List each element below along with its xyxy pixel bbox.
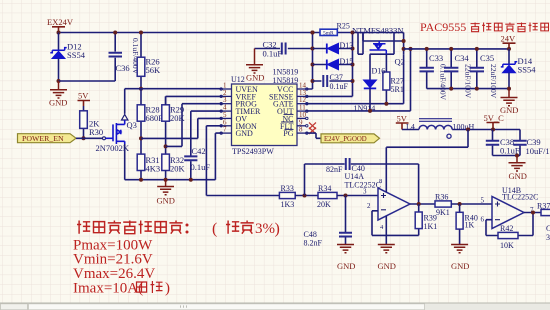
svg-text:D16: D16 <box>372 67 386 76</box>
svg-text:5V: 5V <box>78 91 89 101</box>
diode D13 1N5819 <box>313 41 354 54</box>
svg-text:GND: GND <box>509 171 527 181</box>
svg-text:D15: D15 <box>340 57 354 66</box>
svg-text:SS54: SS54 <box>67 50 86 60</box>
pin 12 GATE <box>273 96 306 109</box>
resistor R33 <box>279 184 295 209</box>
resistor R36 <box>435 193 451 218</box>
wire U14A feedback loop <box>372 211 419 236</box>
resistor R32 <box>162 154 186 180</box>
pin 1 UVEN <box>222 82 258 95</box>
svg-text:(: ( <box>212 221 217 238</box>
svg-text:10K: 10K <box>500 241 514 250</box>
junction at EX24V node <box>57 31 61 35</box>
capacitor C39 <box>513 130 550 156</box>
wire OV tap <box>141 118 222 138</box>
svg-text:U12: U12 <box>231 75 245 84</box>
svg-text:56K: 56K <box>146 65 162 75</box>
junction U14B feedback <box>531 211 535 215</box>
wire gate pin12 run <box>306 54 404 103</box>
svg-text:3: 3 <box>363 188 367 196</box>
pin circle Q3 gate <box>103 137 106 140</box>
resistor R31 <box>137 154 160 180</box>
junction OUT rail <box>409 47 413 51</box>
svg-text:22uF/100V: 22uF/100V <box>489 64 498 99</box>
power port 5V (L4) <box>396 114 409 130</box>
scrollbar horizontal <box>0 303 550 310</box>
junction D13 right <box>351 47 355 51</box>
wire to Q3 drain <box>124 89 126 114</box>
svg-text:NTMFS4833N: NTMFS4833N <box>352 26 403 36</box>
wire 5V_C rail <box>452 129 520 131</box>
junction SENSE rail top <box>351 31 355 35</box>
svg-text:5R1: 5R1 <box>391 85 404 94</box>
svg-text:0.1uF: 0.1uF <box>330 82 349 91</box>
capacitor C40 <box>305 158 419 204</box>
resistor R30 <box>80 106 103 138</box>
svg-text:7: 7 <box>223 126 227 134</box>
junction 24V node <box>507 47 511 51</box>
svg-text:20K: 20K <box>170 113 186 123</box>
svg-text:C33: C33 <box>429 53 443 63</box>
svg-text:20K: 20K <box>317 200 331 209</box>
resistor R27 <box>383 54 404 103</box>
junction C32/D13 <box>311 47 315 51</box>
junction gnd link <box>515 154 519 158</box>
svg-text:0.1uF: 0.1uF <box>191 162 211 172</box>
junction D15 right <box>351 63 355 67</box>
pin 13 SENSE <box>269 89 306 102</box>
svg-text:): ) <box>275 221 280 238</box>
svg-text:1N5819: 1N5819 <box>273 76 299 85</box>
svg-text:GND: GND <box>378 261 396 271</box>
wire UVEN node y=88.7 <box>125 88 222 90</box>
svg-text:82nF: 82nF <box>326 165 343 174</box>
resistor R37 <box>537 202 550 216</box>
wire D12 to gnd node <box>58 59 60 82</box>
svg-text:TPS2493PW: TPS2493PW <box>232 147 274 156</box>
resistor R39 <box>415 204 437 231</box>
capacitor C38 <box>486 130 520 156</box>
svg-text:E24V_PGOOD: E24V_PGOOD <box>324 136 367 143</box>
junction R32 bottom <box>164 178 168 182</box>
capacitor C36 <box>109 33 141 82</box>
power port 5V_C <box>484 113 505 130</box>
svg-text:Q3: Q3 <box>127 120 137 130</box>
junction C40 tap <box>303 194 307 198</box>
svg-text:R42: R42 <box>500 224 513 233</box>
pin 6 IMON <box>222 118 257 131</box>
transistor Q3 2N7002K <box>96 120 137 153</box>
junction D16 out <box>368 109 372 113</box>
junction 5V_C node <box>491 128 495 132</box>
junction L4 right / opamp supply <box>466 128 470 132</box>
ground symbol mid rail <box>157 180 175 206</box>
wire PG to port <box>306 133 321 138</box>
svg-text:R25: R25 <box>337 22 350 31</box>
junction C37 left <box>311 79 315 83</box>
svg-text:C35: C35 <box>480 53 494 63</box>
junction R25 left <box>311 31 315 35</box>
svg-text:0.1uF: 0.1uF <box>263 49 283 59</box>
junction D12 bottom <box>57 79 61 83</box>
diode D16 1N914 <box>354 54 386 113</box>
wire C38/C39 gnd link <box>493 155 521 157</box>
diode D14 SS54 <box>501 49 536 89</box>
svg-text:D13: D13 <box>340 41 354 50</box>
annotation title cjk line <box>77 221 183 234</box>
resistor R25 5mR sense <box>320 22 350 37</box>
svg-text:C34: C34 <box>455 53 470 63</box>
wire Q3 source to gnd rail <box>124 144 126 180</box>
annotation fullwidth colon <box>186 224 189 234</box>
junction R27 bottom <box>384 102 388 106</box>
pin 7 GND <box>222 126 253 139</box>
svg-text:R34: R34 <box>318 184 331 193</box>
wire VCC vertical x=312.5 <box>306 33 313 90</box>
pin stub end markers <box>220 88 222 90</box>
capacitor C42 <box>184 146 210 180</box>
pin 9 FLT <box>280 118 306 131</box>
port E24V_PGOOD <box>321 134 380 143</box>
svg-text:5V_C: 5V_C <box>484 113 505 123</box>
junction Q2 source/out <box>402 39 406 43</box>
svg-text:GND: GND <box>157 196 175 206</box>
junction R31 bottom <box>139 178 143 182</box>
svg-text:8.2nF: 8.2nF <box>304 239 323 248</box>
junction R26 bottom / UVEN node <box>139 87 143 91</box>
ground symbol U14A <box>378 245 396 272</box>
resistor R42 <box>498 224 518 250</box>
wire VREF to R29 top <box>166 96 222 104</box>
wire U14A V+ to 5V_C <box>386 130 468 193</box>
pin arrow at Q3 drain <box>122 115 128 121</box>
junction R28/R31 mid <box>139 136 143 140</box>
junction R40 top <box>458 202 462 206</box>
ground symbol output <box>500 89 518 115</box>
svg-text:22uF/100V: 22uF/100V <box>464 64 473 99</box>
annotation cjk wucha <box>226 221 254 234</box>
wire U14B feedback loop <box>486 213 533 236</box>
svg-text:3%: 3% <box>255 221 275 237</box>
svg-text:Imax=10A(: Imax=10A( <box>73 280 143 296</box>
capacitor C33 <box>420 49 448 101</box>
svg-text:1K: 1K <box>465 221 475 230</box>
svg-text:6: 6 <box>481 216 485 224</box>
junction C35 top <box>475 47 479 51</box>
wire gnd rail y=179.7 <box>125 179 216 181</box>
wire POWER_EN to Q3 gate <box>76 137 103 139</box>
svg-text:R30: R30 <box>89 127 103 137</box>
ground symbol C32 <box>246 49 264 83</box>
annotation cjk top right <box>471 23 549 32</box>
svg-text:C: C <box>546 224 550 233</box>
ground symbol 5V_C <box>509 156 527 182</box>
capacitor C48 <box>304 196 353 248</box>
svg-text:24V: 24V <box>501 34 517 44</box>
svg-text:GND: GND <box>451 261 469 271</box>
svg-text:1K3: 1K3 <box>281 200 295 209</box>
ground symbol R40 <box>451 245 469 272</box>
svg-text:4K3: 4K3 <box>146 164 161 174</box>
wire IMON to R33 <box>206 126 279 196</box>
svg-text:R37: R37 <box>537 202 550 211</box>
svg-text:2: 2 <box>367 202 371 210</box>
op-amp U14B TLC2252C <box>481 186 539 229</box>
port POWER_EN <box>18 134 77 143</box>
wire OUT pin11 <box>306 49 411 111</box>
power port 24V <box>501 34 517 49</box>
junction R26 top <box>139 31 143 35</box>
diode D12 SS54 <box>50 42 85 61</box>
junction D14 bottom <box>507 87 511 91</box>
svg-text:C36: C36 <box>116 63 130 73</box>
wire PROG tap <box>166 104 222 147</box>
svg-text:5mR: 5mR <box>323 31 334 37</box>
no-ERC cross pin 9 <box>309 123 316 130</box>
wire gnd row y=81 to C36 <box>59 80 116 82</box>
transistor Q2 mosfet glyph <box>370 41 387 54</box>
wire GND pin 7 <box>215 133 222 180</box>
power port EX24V <box>47 17 74 33</box>
svg-text:GND: GND <box>337 261 355 271</box>
inductor L4 100uH <box>402 119 475 139</box>
wire output gnd rail y=88.6 <box>427 88 509 90</box>
no-ERC cross pin 8 <box>309 128 316 135</box>
pin 5 OV <box>222 111 247 124</box>
power port 5V (R30) <box>78 91 91 107</box>
transistor Q2 NTMFS4833N wiring box <box>352 26 405 67</box>
svg-text:GND: GND <box>49 98 67 108</box>
resistor R29 <box>162 96 186 154</box>
svg-text:C42: C42 <box>192 146 206 156</box>
wire R33 to R34 <box>295 195 318 197</box>
pin 8 PG <box>283 126 306 139</box>
svg-text:EX24V: EX24V <box>47 17 74 27</box>
svg-text:POWER_EN: POWER_EN <box>22 134 64 143</box>
ground symbol C48 <box>337 245 355 272</box>
svg-text:8: 8 <box>379 178 382 185</box>
annotation cjk shunshi <box>137 281 163 293</box>
resistor R34 <box>317 184 337 209</box>
junction R39 top <box>417 202 421 206</box>
wire output rail y=48.9 <box>404 48 509 50</box>
svg-text:R33: R33 <box>281 184 294 193</box>
junction C42 bottom <box>189 178 193 182</box>
junction C36 top <box>113 31 117 35</box>
junction C35 bottom <box>475 87 479 91</box>
pin 11 OUT <box>277 104 306 117</box>
svg-text:0.1uF/400V: 0.1uF/400V <box>439 64 448 101</box>
svg-text:R36: R36 <box>435 193 448 202</box>
svg-text:GND: GND <box>236 129 254 138</box>
wire U14A V- to gnd <box>385 216 387 244</box>
capacitor C34 <box>444 49 473 99</box>
svg-text:10uF/16V: 10uF/16V <box>526 146 550 156</box>
svg-text:5: 5 <box>481 197 485 205</box>
junction C37 right <box>351 79 355 83</box>
svg-text:L4: L4 <box>406 123 415 132</box>
op-amp U12 IC body TPS2493PW <box>231 75 297 156</box>
capacitor C32 <box>255 40 313 59</box>
junction C33 top <box>425 47 429 51</box>
junction C34 top <box>449 47 453 51</box>
pin 2 VREF <box>222 89 257 102</box>
wire TIMER to C42 <box>191 111 222 155</box>
svg-text:9K1: 9K1 <box>436 208 450 217</box>
resistor R26 <box>137 33 161 89</box>
wire R34 to opamp <box>337 195 378 197</box>
junction D15 left <box>311 63 315 67</box>
junction R30 bottom / POWER_EN node <box>82 136 86 140</box>
wire SENSE vertical x=352.5 <box>306 33 353 97</box>
junction VCC rail top <box>311 31 315 35</box>
wire main 24V input bus y=32.5 <box>59 32 404 34</box>
pin 3 PROG <box>222 96 257 109</box>
svg-text:C37: C37 <box>330 73 343 82</box>
svg-text:20K: 20K <box>170 164 186 174</box>
wire D12 branch <box>58 33 60 51</box>
ground symbol below D12 <box>49 81 67 108</box>
svg-text:TLC2252C: TLC2252C <box>502 193 538 202</box>
capacitor C35 <box>470 49 498 99</box>
diode D15 1N5819 <box>313 57 354 70</box>
op-amp U14A TLC2252C <box>345 172 411 231</box>
svg-text:PAC9555: PAC9555 <box>420 20 466 34</box>
wire U14A output <box>410 203 435 205</box>
svg-text:GND: GND <box>246 73 264 83</box>
svg-text:3: 3 <box>546 233 550 242</box>
capacitor C37 <box>313 73 353 91</box>
junction C34 bottom <box>449 87 453 91</box>
junction R29/R32 mid <box>164 144 168 148</box>
svg-text:PG: PG <box>283 129 293 138</box>
svg-text:8: 8 <box>299 126 303 134</box>
resistor R40 <box>456 204 478 244</box>
pin 4 TIMER <box>222 104 261 117</box>
svg-text:SS54: SS54 <box>518 65 537 75</box>
pin 10 NC <box>282 111 306 124</box>
pin 14 VCC <box>277 82 306 95</box>
junction C48 tap <box>344 194 348 198</box>
wire R36 to U14B <box>451 203 492 205</box>
svg-text:): ) <box>165 280 170 296</box>
svg-text:1K1: 1K1 <box>424 222 438 231</box>
wire U14B output <box>524 212 541 214</box>
resistor R28 <box>137 89 164 154</box>
